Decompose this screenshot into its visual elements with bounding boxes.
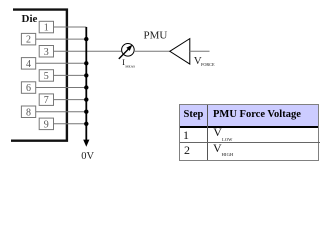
cell V LOW bbox=[213, 125, 232, 140]
wire pad6 to bus bbox=[35, 87, 86, 89]
svg-text:1: 1 bbox=[44, 23, 49, 34]
svg-text:8: 8 bbox=[26, 107, 31, 118]
svg-text:6: 6 bbox=[26, 83, 31, 94]
wire meter to buffer bbox=[134, 50, 170, 52]
junction dot pad4 bbox=[84, 61, 88, 65]
bus arrowhead to 0V bbox=[83, 140, 89, 147]
svg-text:3: 3 bbox=[44, 47, 49, 58]
svg-text:7: 7 bbox=[44, 95, 49, 106]
wire pad8 to bus bbox=[35, 111, 86, 113]
ground bus wire (vertical) bbox=[85, 27, 87, 141]
cell step 2 bbox=[184, 143, 190, 158]
header cell PMU Force Voltage bbox=[213, 109, 301, 120]
pad 2 bbox=[21, 33, 35, 45]
Die package outline bbox=[11, 10, 67, 141]
wire pad2 to bus bbox=[35, 38, 86, 40]
svg-text:4: 4 bbox=[26, 59, 31, 70]
step table bbox=[179, 104, 319, 161]
wire pad4 to bus bbox=[35, 62, 86, 64]
current meter MEAS (circle with arrow) bbox=[119, 44, 134, 59]
svg-text:MEAS: MEAS bbox=[125, 65, 135, 69]
cell V HIGH bbox=[213, 141, 233, 156]
pad 3 bbox=[39, 46, 53, 58]
header cell Step bbox=[184, 109, 204, 120]
svg-text:0V: 0V bbox=[81, 151, 94, 162]
wire pad5 to bus bbox=[54, 74, 87, 76]
svg-text:2: 2 bbox=[26, 35, 31, 46]
meter label I MEAS bbox=[122, 58, 135, 69]
junction dot pad9 bbox=[84, 122, 88, 126]
pad 8 bbox=[21, 106, 35, 118]
wire pad1 to bus bbox=[54, 26, 87, 28]
junction dot pad6 bbox=[84, 85, 88, 89]
buffer amplifier (triangle) bbox=[170, 39, 190, 65]
svg-text:Die: Die bbox=[22, 13, 38, 25]
svg-text:9: 9 bbox=[44, 119, 49, 130]
cell step 1 bbox=[183, 128, 189, 143]
table column divider bbox=[207, 105, 208, 160]
svg-text:PMU: PMU bbox=[144, 30, 168, 42]
wire pad7 to bus bbox=[54, 99, 87, 101]
wire pad3 through bus to meter bbox=[54, 50, 123, 52]
junction dot pad2 bbox=[84, 37, 88, 41]
wire pad9 to bus bbox=[54, 123, 87, 125]
pad 6 bbox=[21, 82, 35, 94]
output wire V FORCE bbox=[190, 50, 210, 52]
svg-text:FORCE: FORCE bbox=[201, 62, 215, 67]
V FORCE label bbox=[194, 55, 215, 67]
junction dot pad8 bbox=[84, 110, 88, 114]
pad 5 bbox=[39, 70, 53, 82]
pad 4 bbox=[21, 58, 35, 70]
pad 9 bbox=[39, 118, 53, 130]
svg-text:5: 5 bbox=[44, 71, 49, 82]
pad 7 bbox=[39, 94, 53, 106]
pad 1 bbox=[39, 21, 53, 33]
junction dot pad5 bbox=[84, 73, 88, 77]
junction dot pad7 bbox=[84, 97, 88, 101]
table header row bbox=[180, 105, 318, 128]
table row divider bbox=[180, 142, 320, 143]
